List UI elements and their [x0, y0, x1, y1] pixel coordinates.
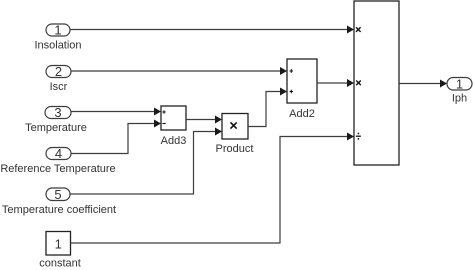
svg-text:1: 1	[456, 77, 463, 92]
inport 5 Temperature coefficient	[2, 187, 116, 216]
svg-text:2: 2	[55, 64, 62, 79]
sum block Add3	[161, 106, 187, 147]
svg-text:Product: Product	[216, 143, 254, 155]
inport 4 Reference Temperature	[0, 146, 115, 175]
inport 2 Iscr	[46, 64, 71, 93]
wire Add2 to product input 2	[317, 79, 354, 87]
svg-text:Iph: Iph	[452, 93, 467, 105]
svg-text:constant: constant	[39, 258, 81, 270]
wire Insolation to product input 1	[70, 26, 354, 34]
svg-text:Temperature: Temperature	[25, 122, 87, 134]
wire Temperature to Add3 input 1	[71, 108, 161, 116]
wire Iscr to Add2 input 1	[71, 67, 287, 75]
svg-text:1: 1	[55, 237, 62, 252]
sum block Add2	[287, 59, 317, 120]
svg-text:5: 5	[54, 187, 61, 202]
svg-text:4: 4	[55, 146, 62, 161]
svg-text:Insolation: Insolation	[34, 40, 81, 52]
wire constant to product input 3	[71, 133, 355, 244]
inport 1 Insolation	[34, 23, 81, 52]
wire Add3 to Product input 1	[186, 116, 222, 124]
svg-text:3: 3	[54, 105, 61, 120]
outport 1 Iph	[447, 77, 472, 105]
product block Product	[216, 114, 254, 156]
svg-text:Iscr: Iscr	[50, 81, 68, 93]
svg-text:Add2: Add2	[289, 108, 315, 120]
svg-text:1: 1	[54, 23, 61, 38]
wire Reference Temperature to Add3 input 2	[71, 120, 161, 154]
product block with 3 inputs (x x /)	[354, 1, 399, 165]
wire product output to outport Iph	[399, 80, 447, 88]
svg-text:Temperature coefficient: Temperature coefficient	[2, 204, 116, 216]
inport 3 Temperature	[25, 105, 87, 134]
constant block value 1	[39, 232, 81, 270]
svg-text:Add3: Add3	[161, 135, 187, 147]
wire Product to Add2 input 2	[248, 88, 287, 127]
wire Temperature coefficient to Product input 2	[70, 128, 222, 195]
svg-text:Reference Temperature: Reference Temperature	[0, 163, 115, 175]
